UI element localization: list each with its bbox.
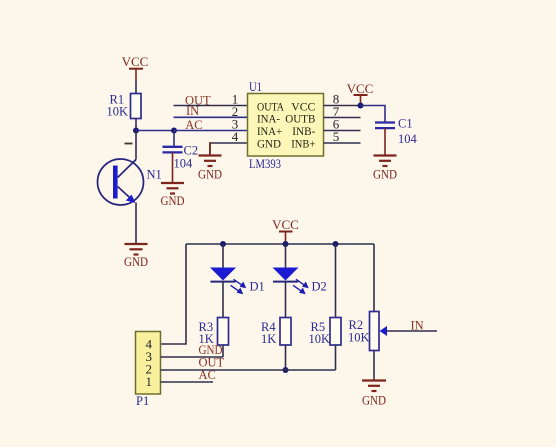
wire transistor emitter to GND: [135, 203, 137, 245]
wire P1 pin1 AC stub: [161, 381, 214, 383]
wire VCC rail: [186, 243, 374, 245]
svg-text:D1: D1: [250, 280, 265, 294]
svg-text:10K: 10K: [107, 104, 129, 118]
wire C1 to ground: [384, 128, 386, 155]
svg-text:P1: P1: [136, 394, 149, 408]
wire rail to R5: [335, 244, 337, 318]
wire C2 to ground: [172, 152, 174, 183]
svg-text:GND: GND: [198, 168, 222, 182]
transistor N1: [98, 159, 162, 205]
svg-text:1K: 1K: [261, 332, 276, 346]
wire rail left end down to P1 pin4: [161, 244, 187, 344]
wire R3 to GND net: [222, 345, 224, 357]
wire pin8 to C1: [361, 106, 386, 123]
ground (pin4): [198, 156, 222, 182]
svg-text:D2: D2: [312, 280, 327, 294]
wire R2 wiper to IN: [387, 330, 437, 332]
wire node B to pin3: [174, 130, 248, 132]
wire pin2 IN: [174, 116, 248, 118]
svg-text:10K: 10K: [348, 331, 370, 345]
svg-text:5: 5: [333, 129, 340, 144]
power VCC (top-left): [122, 54, 149, 80]
wire D2 to R4: [285, 282, 287, 318]
wire P1 pin2 OUT net: [161, 369, 336, 371]
svg-text:INB+: INB+: [291, 136, 315, 150]
wire node A to node B: [136, 130, 174, 132]
svg-text:GND: GND: [161, 194, 185, 208]
svg-text:10K: 10K: [309, 332, 331, 346]
wire pin1 OUT: [174, 105, 248, 107]
pin 6 stub: [324, 130, 361, 132]
wire VCC to R1: [135, 80, 137, 94]
svg-text:IN: IN: [186, 104, 199, 118]
node B junction: [171, 128, 177, 134]
svg-text:AC: AC: [185, 118, 202, 132]
wire R1 to node A: [135, 119, 137, 131]
power VCC (top-right): [347, 81, 374, 106]
node R4/OUT junction: [283, 367, 289, 373]
ground (below C1): [373, 156, 397, 182]
wire node A down to transistor: [135, 131, 137, 160]
wire rail to D1: [222, 244, 224, 268]
resistor R1: [107, 93, 142, 119]
resistor R4: [261, 318, 291, 347]
svg-text:LM393: LM393: [249, 157, 281, 171]
node rail VCC/D2: [283, 241, 289, 247]
svg-text:104: 104: [398, 132, 418, 146]
svg-text:VCC: VCC: [122, 54, 149, 69]
LED D2: [273, 268, 327, 295]
svg-text:AC: AC: [199, 368, 216, 382]
svg-text:GND: GND: [124, 255, 148, 269]
svg-text:VCC: VCC: [347, 81, 374, 96]
wire rail right end to R2: [373, 244, 375, 312]
wire D1 to R3: [222, 282, 224, 318]
wire R4 to OUT net: [285, 345, 287, 370]
node rail D1: [220, 241, 226, 247]
potentiometer R2: [348, 312, 387, 351]
pin 5 stub: [324, 142, 361, 144]
svg-text:N1: N1: [147, 168, 162, 182]
resistor R5: [309, 318, 342, 347]
svg-text:104: 104: [174, 156, 194, 170]
pin 8 stub: [324, 105, 361, 107]
svg-text:4: 4: [232, 129, 239, 144]
svg-text:VCC: VCC: [272, 217, 299, 232]
svg-text:IN: IN: [411, 319, 424, 333]
ground (below C2): [161, 183, 185, 208]
pin 7 stub: [324, 117, 361, 119]
wire P1 pin3 GND net: [161, 356, 224, 358]
connector P1: [136, 332, 161, 409]
svg-text:GND: GND: [373, 168, 397, 182]
LED D1: [210, 268, 265, 295]
capacitor C2: [163, 144, 199, 171]
resistor R3: [199, 318, 229, 347]
op-amp U1 LM393: [248, 80, 324, 171]
wire node B down to C2: [173, 131, 175, 147]
ground (below R2): [362, 381, 386, 408]
wire rail to D2: [285, 244, 287, 268]
wire pin4 to ground: [210, 142, 248, 144]
svg-text:C1: C1: [398, 117, 413, 131]
node rail R5: [333, 241, 339, 247]
svg-text:GND: GND: [362, 394, 386, 408]
wire R5 to OUT net: [335, 345, 337, 370]
svg-text:U1: U1: [249, 80, 262, 94]
svg-text:GND: GND: [257, 136, 281, 150]
wire R2 to ground: [373, 351, 375, 381]
ground (below N1): [124, 244, 148, 269]
node pin8 junction: [358, 103, 364, 109]
capacitor C1: [375, 117, 418, 147]
base dash mark: [125, 143, 133, 145]
svg-text:1: 1: [146, 374, 153, 389]
node A junction: [133, 128, 139, 134]
power VCC (bottom rail): [272, 217, 299, 244]
